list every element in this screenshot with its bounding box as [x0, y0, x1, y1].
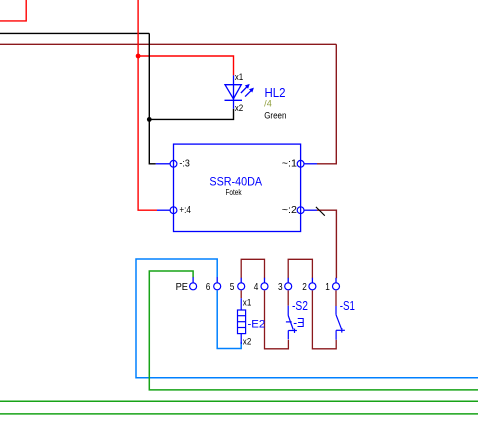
svg-text:x2: x2	[243, 337, 252, 347]
switch S2	[286, 306, 297, 340]
terminal blue stubs	[193, 277, 336, 283]
junction red node	[136, 54, 141, 59]
wire cyan terminal 6 down to E2 x2	[217, 290, 241, 348]
junction black node	[147, 117, 152, 122]
wire dark-red terminal 5 down to E2 x1	[240, 290, 242, 298]
svg-text:-S1: -S1	[340, 299, 355, 313]
LED HL2	[225, 75, 252, 108]
wire red vertical to SSR pin +:4	[138, 0, 157, 210]
op-amp/relay box U1 SSR-40DA	[174, 144, 301, 231]
pin ~:2 of SSR	[304, 209, 317, 211]
wire dark-red terminal 4 down and U to S2 bottom	[265, 290, 289, 348]
pin -:3 of SSR	[156, 163, 170, 165]
svg-text:6: 6	[206, 282, 211, 293]
wire dark-red terminal 3 down to S2	[287, 290, 289, 305]
wire black horizontal (net N)	[0, 32, 149, 34]
svg-text:+:4: +:4	[179, 205, 191, 216]
terminal 5	[238, 283, 245, 290]
wire dark-red from net L down to SSR pin ~:1	[317, 44, 336, 164]
wire black branch from LED x2	[149, 109, 233, 120]
wire red branch to LED x1	[138, 56, 233, 75]
svg-text:2: 2	[302, 282, 307, 293]
switch S1	[336, 306, 345, 340]
svg-text:1: 1	[325, 282, 330, 293]
pin +:4 of SSR	[157, 209, 170, 211]
svg-text:Fotek: Fotek	[226, 187, 243, 197]
svg-text:-:3: -:3	[179, 159, 190, 170]
wire green bus PE horizontal 1	[0, 400, 478, 402]
terminal 1	[333, 283, 340, 290]
wire green bus PE horizontal 2	[0, 413, 478, 415]
wire dark-red terminal 2 down and U to S1 bottom	[312, 290, 336, 348]
terminal 2	[309, 283, 316, 290]
wire red stub top-left (net L1)	[0, 0, 26, 21]
svg-text:HL2: HL2	[265, 85, 286, 100]
svg-text:-Ǝ: -Ǝ	[293, 316, 305, 330]
svg-text:4: 4	[254, 282, 259, 293]
terminal PE	[190, 283, 197, 290]
wire dark-red terminal 1 down to S1	[335, 290, 337, 306]
wire dark-red U terminal 5 to 4	[241, 259, 264, 278]
resistor/heater E2	[238, 298, 246, 344]
wire cyan terminal 6 up-left-down to bottom right	[136, 259, 478, 378]
svg-text:5: 5	[230, 282, 235, 293]
svg-text:-S2: -S2	[292, 299, 308, 313]
wire dark-red horizontal (net L)	[0, 43, 336, 45]
wire dark-red from SSR pin ~:2 to terminal 1	[317, 210, 336, 278]
terminal 3	[285, 283, 292, 290]
svg-text:~:1: ~:1	[282, 159, 298, 170]
LED HL2 arrowheads	[245, 84, 250, 89]
svg-text:PE: PE	[176, 282, 189, 293]
wire black vertical to SSR pin -:3	[149, 33, 156, 163]
svg-text:/4: /4	[264, 99, 272, 109]
svg-text:-E2: -E2	[248, 318, 266, 330]
wire-break slash at ~:2	[316, 207, 325, 216]
svg-text:x1: x1	[243, 298, 252, 308]
svg-text:3: 3	[278, 282, 283, 293]
pin ~:1 of SSR	[304, 163, 317, 165]
wire dark-red U terminal 3 to 2	[288, 259, 312, 278]
wire green terminal PE up-left-down to bottom right	[149, 271, 478, 390]
svg-text:~:2: ~:2	[282, 205, 297, 216]
terminal 4	[261, 283, 268, 290]
svg-text:x1: x1	[235, 72, 244, 82]
terminal 6	[214, 283, 221, 290]
svg-text:x2: x2	[235, 103, 244, 113]
svg-text:Green: Green	[264, 111, 286, 122]
